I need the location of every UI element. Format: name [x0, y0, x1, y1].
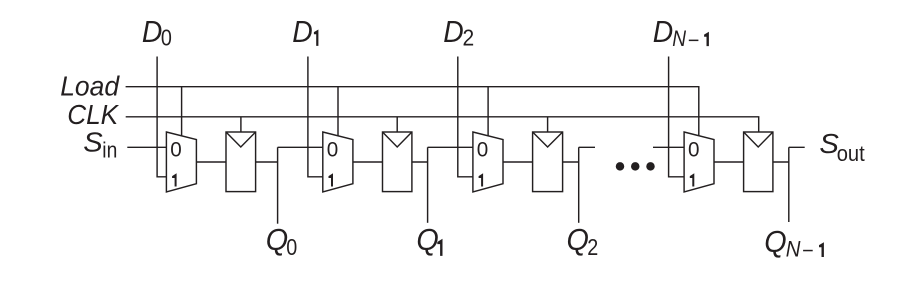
wire Load select stub mux 3: [487, 87, 489, 136]
wire Load bus: [126, 87, 699, 136]
svg-text:out: out: [837, 141, 865, 166]
label D1: [292, 14, 318, 49]
wire Load select stub mux 2: [337, 87, 339, 136]
label Q0: [266, 222, 298, 260]
wire DN-1 vertical into mux 4 input 1: [669, 57, 685, 177]
mux M2 (2:1 multiplexer): [323, 132, 353, 192]
wire flipflop 3 Q output: [563, 161, 579, 163]
wire CLK stub flipflop 3: [547, 117, 549, 132]
svg-text:0: 0: [170, 139, 182, 162]
mux M3 (2:1 multiplexer): [473, 132, 503, 192]
wire CLK stub flipflop 2: [396, 117, 398, 132]
svg-text:0: 0: [688, 139, 700, 162]
label Q2: [567, 222, 599, 260]
flip-flop U3 (D register): [533, 132, 563, 192]
mux M1 pin label 1: [172, 173, 177, 186]
wire flipflop 2 Q output: [412, 161, 428, 163]
flip-flop U1 (D register): [226, 132, 256, 192]
svg-text:D: D: [443, 14, 464, 49]
wire D1 vertical into mux 2 input 1: [308, 57, 323, 177]
node Q2 junction vertical: [578, 147, 580, 223]
svg-text:Load: Load: [60, 70, 120, 101]
svg-text:D: D: [292, 14, 313, 49]
label Sout: [819, 128, 864, 166]
wire D0 vertical into mux 1 input 1: [157, 57, 166, 177]
svg-text:0: 0: [327, 139, 339, 162]
wire Sin input: [127, 146, 166, 148]
mux M3 pin label 1: [479, 173, 484, 186]
svg-text:2: 2: [463, 25, 475, 51]
wire stub from ellipsis to mux 4 input 0: [653, 146, 684, 148]
label QN-1: [764, 224, 824, 261]
svg-text:2: 2: [587, 234, 598, 260]
wire mux 1 output to flipflop 1 D: [196, 161, 226, 163]
wire D2 vertical into mux 3 input 1: [458, 57, 473, 177]
svg-text:D: D: [653, 14, 674, 49]
svg-text:Q: Q: [266, 222, 288, 257]
ellipsis dots (omitted stages): [616, 162, 655, 171]
svg-text:Q: Q: [416, 222, 438, 257]
node Q1 junction vertical: [427, 147, 429, 223]
wire Load select stub mux 1: [181, 87, 183, 136]
wire mux 3 output to flipflop 3 D: [503, 161, 533, 163]
svg-text:S: S: [83, 126, 103, 157]
svg-text:0: 0: [286, 234, 297, 260]
label D2: [443, 14, 474, 51]
svg-text:in: in: [102, 138, 117, 163]
label Sin: [83, 126, 117, 162]
label DN-1: [653, 14, 709, 51]
svg-text:Q: Q: [764, 224, 786, 259]
wire CLK stub flipflop 1: [240, 117, 242, 132]
mux M4 pin label 1: [690, 173, 695, 186]
wire flipflop 4 Q output: [773, 161, 789, 163]
mux M1 (2:1 multiplexer): [166, 132, 196, 192]
svg-text:D: D: [142, 14, 163, 49]
wire CLK bus: [126, 117, 759, 132]
svg-text:N: N: [786, 237, 801, 262]
flip-flop U2 (D register): [383, 132, 412, 192]
svg-text:N: N: [672, 26, 686, 51]
mux M4 (2:1 multiplexer): [684, 132, 714, 192]
mux M2 pin label 1: [329, 173, 334, 186]
flip-flop U4 (D register): [744, 132, 773, 192]
label Q1: [416, 222, 442, 257]
label D0: [142, 14, 172, 51]
svg-text:0: 0: [161, 25, 172, 51]
wire Q1 to mux 3 input 0: [428, 146, 473, 148]
svg-text:Q: Q: [567, 222, 589, 257]
wire mux 4 output to flipflop 4 D: [714, 161, 744, 163]
wire Sout stub: [789, 146, 805, 148]
wire Q0 to mux 2 input 0: [278, 146, 323, 148]
node QN-1 junction vertical: [788, 147, 790, 222]
wire mux 2 output to flipflop 2 D: [353, 161, 383, 163]
svg-text:0: 0: [477, 139, 489, 162]
node Q0 junction vertical: [277, 147, 279, 223]
wire flipflop 1 Q output: [256, 161, 278, 163]
wire Q2 stub toward ellipsis: [579, 146, 595, 148]
